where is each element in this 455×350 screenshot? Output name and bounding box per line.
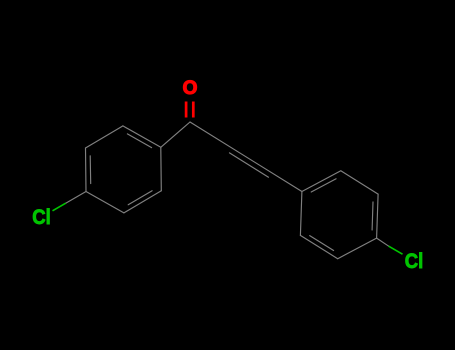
bond Cl right green half [389,246,403,254]
wire: right ring edge Rtop-R2 [341,171,378,194]
wire: right ring edge RCl-Rbot [338,238,377,259]
wire: left ring edge P4-P5 [86,192,124,213]
wire: left ring edge P1-P2 [123,126,161,147]
svg-text:Cl: Cl [32,205,51,229]
wire: right ring edge R1-Rtop [302,171,341,192]
wire: left ring edge P2-P3 [160,147,163,191]
bond Cl left green half [53,203,66,211]
svg-text:Cl: Cl [405,249,424,273]
wire: left ring edge P5-P6 [85,148,88,192]
wire: chain C2=C3 second line [230,153,269,177]
carbonyl C=O double bond red lines [186,102,193,118]
wire: bond RCl to Cl gray half [377,238,389,246]
wire: bond P5 to Cl gray half [66,192,86,204]
wire: right ring inner double bond Rbot-R5 [310,236,334,251]
wire: bond ring to carbonyl C [161,122,190,147]
wire: left ring inner double bond P1-P2 [127,134,151,148]
wire: right ring edge Rbot-R5 [300,235,337,258]
wire: left ring inner double bond P5-P6 [89,156,92,184]
wire: right ring edge R2-RCl [377,194,379,238]
wire: right ring edge R5-R1 [300,192,302,236]
wire: right ring inner double bond R1-Rtop [311,179,336,192]
svg-text:O: O [183,78,198,99]
wire: left ring inner double bond P3-P4 [128,191,152,205]
wire: left ring edge P6-P1 [86,126,123,148]
wire: right ring inner double bond R2-RCl [371,202,374,230]
wire: chain C1-C2=C3-R1 straight [190,122,302,192]
wire: left ring edge P3-P4 [124,191,161,213]
